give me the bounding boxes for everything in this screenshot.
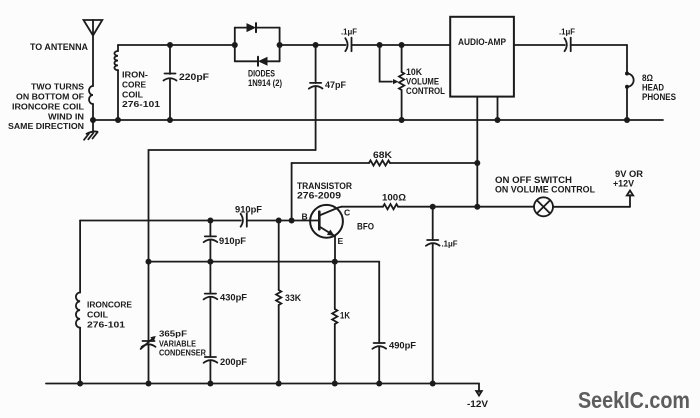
node bus 200pF <box>207 381 213 387</box>
svg-text:276-101: 276-101 <box>122 99 160 109</box>
svg-text:-12V: -12V <box>467 399 488 409</box>
svg-text:HEAD: HEAD <box>642 83 664 93</box>
label DIODES 1N914 (2) <box>248 69 282 89</box>
capacitor 220pF <box>164 45 177 120</box>
label 8 ohm head phones <box>642 73 676 102</box>
node bus 490pF <box>376 381 382 387</box>
node headphones bus <box>624 117 630 123</box>
wire base rail y=220.5 <box>80 220 319 222</box>
wire diodes to cap <box>280 44 346 46</box>
svg-text:COIL: COIL <box>122 90 143 100</box>
label 365pF variable condenser <box>159 329 207 358</box>
diodes D1 D2 1N914 (2) loop <box>235 28 280 62</box>
svg-text:430pF: 430pF <box>220 293 248 303</box>
capacitor C1 .1uF input <box>345 38 450 52</box>
variable capacitor 365pF <box>141 262 156 384</box>
svg-text:ON VOLUME CONTROL: ON VOLUME CONTROL <box>495 185 595 195</box>
svg-text:SeekIC.com: SeekIC.com <box>578 387 690 413</box>
svg-text:9V OR: 9V OR <box>615 169 644 179</box>
node bus .1uF <box>430 381 436 387</box>
inductor L2 ironcore coil 276-101 <box>76 221 80 384</box>
node emitter mid <box>332 259 338 265</box>
capacitor 490pF <box>372 262 386 384</box>
svg-text:.1μF: .1μF <box>442 239 458 249</box>
svg-text:B: B <box>302 212 308 222</box>
note: two turns text <box>8 82 84 132</box>
ground <box>84 120 98 140</box>
svg-text:8Ω: 8Ω <box>642 73 653 83</box>
svg-text:TWO TURNS: TWO TURNS <box>31 82 84 92</box>
node bus 33K <box>276 381 282 387</box>
svg-text:IRONCORE: IRONCORE <box>87 300 132 310</box>
node diode left <box>232 42 238 48</box>
label 9V or +12V <box>613 169 644 189</box>
node pot top <box>399 42 405 48</box>
svg-text:276-2009: 276-2009 <box>297 191 341 201</box>
antenna <box>84 20 103 120</box>
label IRONCORE COIL 276-101 <box>87 300 132 330</box>
svg-text:47pF: 47pF <box>325 80 346 90</box>
svg-text:TO ANTENNA: TO ANTENNA <box>30 42 88 52</box>
svg-text:E: E <box>338 236 344 246</box>
svg-text:ON OFF SWITCH: ON OFF SWITCH <box>495 175 572 185</box>
supply arrow 9V/+12V <box>627 191 633 207</box>
node pot bus <box>399 117 405 123</box>
svg-text:276-101: 276-101 <box>87 320 125 330</box>
svg-text:CONDENSER: CONDENSER <box>159 348 207 358</box>
node 910 shunt bottom <box>207 259 213 265</box>
ground bus y=120 <box>93 119 663 121</box>
svg-text:+12V: +12V <box>613 179 634 189</box>
node 910pF shunt top <box>207 218 213 224</box>
label 10K VOLUME CONTROL <box>406 67 445 96</box>
resistor 1K <box>332 262 337 384</box>
node bus L2 <box>77 381 83 387</box>
svg-text:SAME DIRECTION: SAME DIRECTION <box>8 121 84 131</box>
wire mid rail y=261.6 <box>149 261 380 263</box>
svg-text:VOLUME: VOLUME <box>406 77 439 87</box>
diode D1 (top, pointing right) <box>247 23 257 32</box>
svg-text:WIND IN: WIND IN <box>48 111 84 121</box>
node coil-bus <box>115 117 121 123</box>
wire amp ground pin <box>497 97 499 120</box>
wire 68K to base <box>291 163 293 221</box>
capacitor 47pF <box>309 45 323 150</box>
svg-text:1K: 1K <box>340 311 350 321</box>
transistor Q1 276-2009 <box>310 205 343 262</box>
svg-text:365pF: 365pF <box>159 329 187 339</box>
node 68K right <box>474 160 480 166</box>
capacitor 430pF <box>204 262 218 357</box>
wire amp supply pin down <box>476 97 478 207</box>
svg-text:490pF: 490pF <box>389 341 417 351</box>
svg-text:COIL: COIL <box>87 310 108 320</box>
node .1uF top <box>430 204 436 210</box>
node tank mid <box>146 259 152 265</box>
svg-text:TRANSISTOR: TRANSISTOR <box>297 181 352 191</box>
node 220pF bus <box>167 117 173 123</box>
svg-text:10K: 10K <box>406 67 422 77</box>
svg-text:68K: 68K <box>373 150 393 160</box>
capacitor 910pF shunt <box>204 221 218 262</box>
capacitor 200pF <box>204 357 218 384</box>
labels switch <box>495 175 595 195</box>
node diode right <box>277 42 283 48</box>
node bus 1K <box>332 381 338 387</box>
svg-text:PHONES: PHONES <box>642 92 676 102</box>
node 220pF top <box>167 42 173 48</box>
wire top rail y=45 <box>118 44 235 46</box>
node bus 365pF <box>146 381 152 387</box>
bottom bus -12V <box>46 384 479 393</box>
headphones 8 ohm <box>625 45 634 120</box>
node pot tap <box>377 42 383 48</box>
lamp on-off switch <box>534 197 630 216</box>
capacitor .1uF BFO <box>426 207 440 384</box>
svg-text:100Ω: 100Ω <box>382 193 406 203</box>
svg-text:220pF: 220pF <box>179 72 210 82</box>
svg-text:1N914 (2): 1N914 (2) <box>248 78 282 88</box>
svg-text:.1μF: .1μF <box>341 27 357 37</box>
wire 47pF to tank node <box>149 150 316 262</box>
arrow -12V <box>476 391 482 396</box>
capacitor C2 .1uF output <box>514 38 627 52</box>
svg-text:BFO: BFO <box>357 222 374 232</box>
potentiometer 10K volume control <box>380 45 405 120</box>
node 47pF top <box>313 42 319 48</box>
labels transistor <box>297 181 374 246</box>
node antenna-bus <box>90 117 96 123</box>
svg-text:C: C <box>344 208 350 218</box>
svg-text:ON BOTTOM OF: ON BOTTOM OF <box>16 92 84 102</box>
label IRON-CORE COIL 276-101 <box>122 70 160 110</box>
resistor 33K <box>276 221 281 384</box>
svg-text:910pF: 910pF <box>219 236 247 246</box>
resistor 100 ohm <box>342 204 535 209</box>
svg-text:IRONCORE COIL: IRONCORE COIL <box>12 102 84 112</box>
resistor 68K <box>292 160 478 165</box>
svg-text:910pF: 910pF <box>235 205 263 215</box>
node supply line <box>474 204 480 210</box>
svg-text:IRON-: IRON- <box>122 70 148 80</box>
audio-amp U1 box <box>450 17 514 97</box>
svg-text:33K: 33K <box>285 293 301 303</box>
svg-text:200pF: 200pF <box>220 357 248 367</box>
node amp pin bus <box>495 117 501 123</box>
capacitor 910pF series <box>241 213 247 227</box>
node 33K top <box>276 218 282 224</box>
svg-text:.1μF: .1μF <box>559 27 575 37</box>
svg-text:CORE: CORE <box>122 80 146 90</box>
diode D2 (bottom, pointing left) <box>258 57 268 66</box>
node base junction <box>289 218 295 224</box>
inductor L1 iron-core coil 276-101 <box>114 45 118 120</box>
svg-text:DIODES: DIODES <box>248 69 275 79</box>
svg-text:AUDIO-AMP: AUDIO-AMP <box>458 37 506 47</box>
svg-text:CONTROL: CONTROL <box>406 86 445 96</box>
